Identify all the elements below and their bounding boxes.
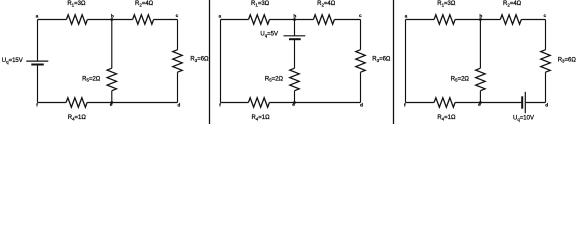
svg-text:R3=6Ω: R3=6Ω	[558, 57, 577, 63]
svg-text:e: e	[110, 103, 113, 108]
wire: circuit3 bottom rail, R4 to battery	[455, 102, 521, 104]
wire: circuit3 top rail, R1 to node b	[455, 19, 500, 21]
svg-text:R5=2Ω: R5=2Ω	[451, 76, 470, 82]
svg-text:R3=6Ω: R3=6Ω	[190, 57, 209, 63]
svg-text:a: a	[405, 14, 408, 19]
svg-text:c: c	[359, 14, 362, 19]
wire: circuit3 bottom rail, node f to R4	[406, 102, 435, 104]
wire: circuit2 top rail, R1 to node b	[270, 19, 314, 21]
node e junction dot circuit3	[479, 101, 482, 104]
resistor R2 circuit2	[313, 15, 334, 24]
node e junction dot circuit2	[293, 101, 296, 104]
wire: circuit2 bottom rail, R4 to node d	[269, 102, 360, 104]
svg-text:R2=4Ω: R2=4Ω	[317, 1, 336, 7]
wire: circuit1 bottom rail, R4 to node d	[87, 102, 177, 104]
resistor R1 circuit2	[249, 15, 270, 24]
svg-text:R1=3Ω: R1=3Ω	[67, 1, 86, 7]
wire: circuit2 middle branch, R5 down to node e	[294, 91, 296, 103]
resistor R4 circuit1	[66, 98, 87, 107]
wire: circuit1 top rail, R2 to node c	[154, 19, 178, 21]
wire: circuit2 top rail, node a to R1	[221, 19, 249, 21]
svg-text:R2=4Ω: R2=4Ω	[503, 1, 522, 7]
svg-text:R4=1Ω: R4=1Ω	[251, 115, 270, 121]
svg-text:R4=1Ω: R4=1Ω	[68, 115, 87, 121]
wire: circuit3 middle branch, node b down to R5	[479, 20, 481, 69]
battery Uq circuit3: long positive plate	[524, 92, 526, 113]
svg-text:c: c	[543, 14, 546, 19]
wire: circuit2 top rail, R2 to node c	[334, 19, 360, 21]
svg-text:d: d	[360, 103, 363, 109]
wire: circuit3 top rail, R2 to node c	[521, 19, 545, 21]
wire: circuit3 top rail, node a to R1	[406, 19, 435, 21]
battery Uq circuit2: short thick negative plate	[289, 38, 301, 40]
wire: circuit1 middle branch, node b down to R5	[111, 20, 113, 69]
resistor R1 circuit3	[434, 15, 455, 24]
wire: circuit2 right rail, R3 down to node d	[360, 72, 362, 102]
svg-text:a: a	[218, 14, 221, 19]
wire: circuit1 left rail, battery down to node f	[37, 65, 39, 103]
wire: circuit1 top rail, R1 to node b	[87, 19, 132, 21]
svg-text:R5=2Ω: R5=2Ω	[82, 76, 101, 82]
svg-text:e: e	[292, 103, 295, 108]
wire: circuit2 middle branch, battery down to R5	[294, 39, 296, 68]
resistor R1 circuit1	[66, 15, 87, 24]
svg-text:Uq=10V: Uq=10V	[513, 115, 534, 121]
wire: circuit2 middle branch, node b down to battery	[294, 20, 296, 36]
wire: circuit3 middle branch, R5 down to node e	[479, 91, 481, 103]
svg-text:b: b	[479, 13, 482, 19]
resistor R5 circuit2	[290, 68, 299, 91]
resistor R5 circuit3	[476, 68, 485, 91]
node b junction dot circuit1	[110, 18, 113, 21]
wire: circuit1 top rail, node a to R1	[38, 19, 67, 21]
wire: circuit1 middle branch, R5 down to node e	[111, 91, 113, 103]
wire: circuit1 left rail, node a down to battery	[37, 20, 39, 62]
svg-text:R3=6Ω: R3=6Ω	[372, 57, 391, 63]
resistor R2 circuit1	[133, 15, 154, 24]
node b junction dot circuit2	[293, 18, 296, 21]
resistor R3 circuit1	[173, 50, 182, 72]
battery Uq circuit1: long positive plate	[26, 60, 48, 62]
wire: circuit2 left rail, node a down to node f	[220, 20, 222, 103]
wire: circuit1 right rail, node c down to R3	[177, 20, 179, 50]
svg-text:d: d	[545, 103, 548, 109]
battery Uq circuit2: long positive plate	[284, 35, 306, 37]
wire: circuit1 bottom rail, node f to R4	[38, 102, 67, 104]
node b junction dot circuit3	[479, 18, 482, 21]
svg-text:Uq=15V: Uq=15V	[2, 58, 23, 64]
resistor R2 circuit3	[500, 15, 521, 24]
svg-text:R2=4Ω: R2=4Ω	[135, 1, 154, 7]
wire: circuit1 right rail, R3 down to node d	[177, 72, 179, 102]
svg-text:b: b	[293, 13, 296, 19]
battery Uq circuit1: short thick negative plate	[31, 64, 44, 66]
wire: circuit3 left rail, node a down to node f	[405, 20, 407, 103]
svg-text:R1=3Ω: R1=3Ω	[437, 1, 456, 7]
resistor R3 circuit3	[541, 50, 550, 72]
wire: circuit3 right rail, node c down to R3	[545, 20, 547, 50]
node e junction dot circuit1	[110, 101, 113, 104]
resistor R5 circuit1	[107, 68, 116, 91]
resistor R4 circuit2	[248, 98, 269, 107]
wire: circuit2 bottom rail, node f to R4	[221, 102, 249, 104]
wire: circuit2 right rail, node c down to R3	[360, 20, 362, 50]
svg-text:R4=1Ω: R4=1Ω	[437, 115, 456, 121]
resistor R4 circuit3	[434, 98, 455, 107]
svg-text:d: d	[177, 103, 180, 109]
svg-text:R1=3Ω: R1=3Ω	[251, 1, 270, 7]
svg-text:a: a	[36, 14, 39, 19]
wire: circuit3 bottom rail, battery to node d	[526, 102, 546, 104]
wire: circuit3 right rail, R3 down to node d	[545, 72, 547, 102]
svg-text:R5=2Ω: R5=2Ω	[265, 76, 284, 82]
resistor R3 circuit2	[356, 50, 365, 72]
panel divider line between circuit2 and circuit3	[393, 0, 395, 124]
svg-text:c: c	[176, 14, 179, 19]
svg-text:Uq=5V: Uq=5V	[260, 32, 278, 38]
svg-text:b: b	[111, 13, 114, 19]
panel divider line between circuit1 and circuit2	[209, 0, 211, 124]
svg-text:e: e	[478, 103, 481, 108]
battery Uq circuit3: short thick negative plate	[521, 96, 523, 108]
